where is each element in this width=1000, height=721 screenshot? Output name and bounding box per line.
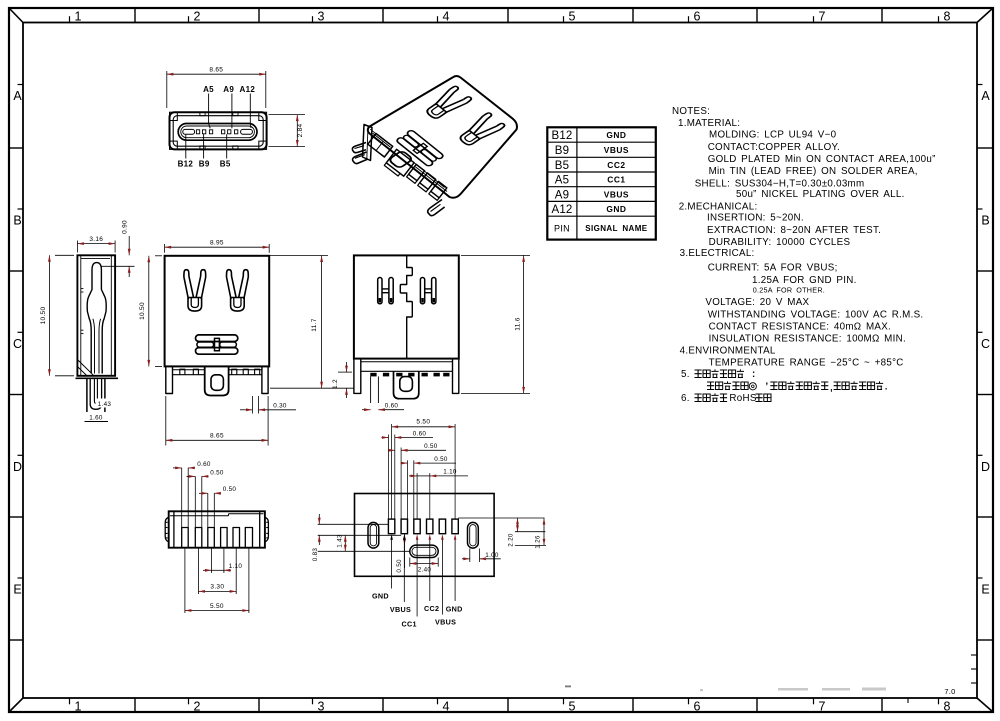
svg-text:CC1: CC1 [402,619,417,628]
svg-text:50u” NICKEL PLATING OVER ALL.: 50u” NICKEL PLATING OVER ALL. [736,189,905,200]
rside clip left [378,278,394,304]
front latch spring right [227,270,249,311]
svg-text:B: B [13,214,21,228]
front center solder tab [205,366,229,395]
svg-text:A5: A5 [555,175,569,187]
pcb left extension lines [318,523,389,525]
svg-text:5.50: 5.50 [210,603,224,610]
bview pin extension lines up [181,468,183,528]
iso latch spring right [455,112,506,149]
dimension 8.65 (shell width, face view) [166,71,168,108]
dimension 11.6 (rside height) [461,254,530,256]
svg-text:8: 8 [944,700,951,714]
svg-text::: : [752,369,756,380]
svg-text:VBUS: VBUS [604,145,629,155]
svg-text:10.50: 10.50 [139,302,146,320]
shell outer outline [170,112,267,149]
shell bottom edge weld bumps [200,146,205,150]
svg-text:NOTES:: NOTES: [672,106,710,117]
iso latch spring left [422,85,473,122]
rside base right leg [453,359,459,394]
dimension 0.50 (pcb vertical) [404,534,406,545]
zone number labels top [69,16,71,22]
svg-text:C: C [981,337,990,351]
pcb outline [355,494,495,577]
svg-text:A12: A12 [240,85,256,94]
frame corner diagonals [9,8,23,23]
pin leader A12 [249,94,251,124]
svg-text:GOLD PLATED Min ON CONTACT ARE: GOLD PLATED Min ON CONTACT AREA,100u” [708,154,936,165]
svg-text:0.50: 0.50 [424,443,438,450]
svg-text:1.00: 1.00 [485,552,499,559]
svg-text:A9: A9 [223,85,234,94]
tongue contact pads [196,130,199,134]
svg-text:GND: GND [606,130,626,140]
dimension 10.50 (front height) [155,255,162,257]
svg-text:4: 4 [443,10,450,24]
iso left solder fork upper [352,143,366,153]
side bottom hatch [77,360,93,376]
svg-text:B9: B9 [555,145,569,157]
dimension 1.43 (leg fork) [96,399,114,408]
iso left mount post [363,125,373,161]
front base left leg [166,366,173,393]
svg-text:CONTACT:COPPER ALLOY.: CONTACT:COPPER ALLOY. [708,142,840,153]
svg-text:3: 3 [318,700,325,714]
svg-text:2: 2 [194,700,201,714]
svg-text:0.30: 0.30 [273,403,287,410]
zone letter labels right [977,84,983,86]
svg-text:11.7: 11.7 [311,318,318,331]
dimension 0.90 (spring recess) [101,265,135,267]
svg-text:1: 1 [75,10,82,24]
side leg fork [90,378,101,409]
svg-text:VBUS: VBUS [390,605,411,614]
faint erased title block marks [700,688,886,692]
svg-text:1.25A FOR GND PIN.: 1.25A FOR GND PIN. [752,275,857,286]
pin leader B9 [203,134,205,158]
rside base left leg [354,359,361,394]
svg-text:CONTACT RESISTANCE: 40mΩ MAX.: CONTACT RESISTANCE: 40mΩ MAX. [709,322,891,333]
table column divider [576,127,578,239]
pin leader A9 [231,94,233,129]
dimension 2.84 (slot height, face view) [269,114,306,116]
rside solder tail dashes [370,373,376,377]
svg-text:SIGNAL NAME: SIGNAL NAME [585,224,648,233]
pcb pad extension lines up [387,435,389,520]
zone letter labels left [18,84,24,86]
svg-text:INSULATION RESISTANCE: 100MΩ M: INSULATION RESISTANCE: 100MΩ MIN. [709,334,906,345]
iso center tab with hole [386,149,414,176]
dimension 1.10 (pcb pitch) [409,475,417,477]
dimension 3.16 (side width) [76,241,78,253]
pcb center slot oval [410,545,438,557]
svg-text:MOLDING: LCP UL94 V−0: MOLDING: LCP UL94 V−0 [709,130,837,141]
svg-text:SHELL: SUS304−H,T=0.30±0.03mm: SHELL: SUS304−H,T=0.30±0.03mm [695,178,865,189]
bview top inner line [170,515,229,517]
svg-text:1.10: 1.10 [443,469,457,476]
svg-text:1.10: 1.10 [229,563,243,570]
svg-text:1: 1 [75,700,82,714]
svg-text:B: B [981,214,989,228]
svg-text:6.: 6. [681,393,690,404]
svg-text:0.50: 0.50 [210,469,224,476]
dimension 0.83 (pcb) [318,514,320,524]
svg-text:7: 7 [819,700,826,714]
iso shell step shelf [368,134,393,158]
dimension 1.26 (pcb) [543,518,545,545]
svg-text:5: 5 [569,10,576,24]
svg-text:11.6: 11.6 [514,317,521,330]
svg-text:0.50: 0.50 [223,486,237,493]
svg-text:GND: GND [372,592,389,601]
svg-text:7: 7 [819,10,826,24]
iso latch/clip features on top face [370,85,506,185]
svg-text:1.60: 1.60 [89,414,103,421]
front base strip [173,369,205,371]
pcb right slot oval [468,522,479,548]
dimension 3.30 (pitch) [199,590,237,592]
svg-text:8.65: 8.65 [210,433,224,440]
bview pin extension lines down [184,548,186,613]
tongue left contact bar [183,129,195,134]
svg-text:A: A [13,89,22,103]
svg-text:D: D [13,460,22,474]
svg-text:B5: B5 [555,160,569,172]
svg-text:7.0: 7.0 [944,687,955,696]
svg-text:0.50: 0.50 [434,456,448,463]
svg-text:,: , [830,383,833,393]
front base right leg [262,366,268,393]
rside center solder tab [394,371,419,398]
iso solder tooth 3 [431,181,447,197]
svg-text:0.83: 0.83 [312,548,319,562]
svg-text:3.ELECTRICAL:: 3.ELECTRICAL: [680,248,755,259]
shell inner outline [173,116,263,147]
svg-text:10.50: 10.50 [40,307,47,325]
svg-text:4.ENVIRONMENTAL: 4.ENVIRONMENTAL [680,346,776,357]
svg-text:EXTRACTION: 8~20N AFTER TEST.: EXTRACTION: 8~20N AFTER TEST. [707,225,881,236]
rside pin extension lines [370,376,372,403]
svg-text:6: 6 [694,10,701,24]
dimension 0.50 #2 (pin3 width, bottom view) [199,492,208,494]
iso shell hole [388,150,413,168]
right border graduation ticks [971,654,977,656]
dimension 0.30 (leg thickness) [252,396,254,414]
shell top edge weld bumps [200,112,205,116]
svg-text:TEMPERATURE RANGE −25°C ~ +85°: TEMPERATURE RANGE −25°C ~ +85°C [709,357,904,368]
bview left end cap [173,511,175,547]
svg-text:.: . [885,382,888,392]
iso body outline [368,76,517,198]
iso mid EMC clip [396,130,445,167]
svg-text:D: D [981,460,990,474]
svg-text:1.MATERIAL:: 1.MATERIAL: [678,118,740,129]
rside base strip [361,361,453,363]
svg-text:C: C [13,337,22,351]
side wall notches [81,288,84,290]
dimension 0.50 #2 (pcb gap) [401,462,408,464]
svg-text:5.50: 5.50 [416,418,430,425]
bview body outline [169,511,265,547]
shell corner tabs [170,112,178,120]
svg-text:1.2: 1.2 [332,379,339,389]
rside center tab hole [400,377,413,392]
top/bottom zone divider ticks [134,8,136,23]
side internal contact spring [87,263,106,374]
svg-text:VBUS: VBUS [435,618,456,627]
front body outline [165,256,270,367]
svg-text:VOLTAGE: 20 V MAX: VOLTAGE: 20 V MAX [705,297,809,308]
svg-text:3.30: 3.30 [210,584,224,591]
dimension 0.60 (pcb pad width) [382,437,389,439]
tongue right contact bar [241,129,253,134]
svg-text:CC1: CC1 [607,175,625,185]
table row lines [547,141,656,143]
rside parting zigzag line [400,255,412,358]
front base solder tabs [180,369,185,375]
pin leader A5 [208,94,210,124]
svg-text:DURABILITY: 10000 CYCLES: DURABILITY: 10000 CYCLES [709,237,851,248]
iso solder tooth 1 [409,164,425,180]
pcb signal leader lines [391,538,393,589]
side body inner wall lines [110,255,112,375]
dimension 2.20 (pcb) [517,518,519,532]
svg-text:CURRENT: 5A FOR VBUS;: CURRENT: 5A FOR VBUS; [708,263,838,274]
svg-text:8.65: 8.65 [209,67,223,74]
pin assignment table [547,127,656,239]
svg-text:2.MECHANICAL:: 2.MECHANICAL: [679,202,758,213]
dimension 1.43 (pcb) [344,535,346,551]
svg-text:’: ’ [765,382,768,393]
svg-text:B9: B9 [199,160,210,169]
side bottom plate [76,377,119,379]
dimension 2.40 (pcb center slot) [409,558,411,567]
iso bottom solder fork [428,200,445,216]
svg-text:1.43: 1.43 [98,401,112,408]
svg-text:3.16: 3.16 [89,236,103,243]
svg-text:1.26: 1.26 [535,535,542,549]
side body outline [77,255,115,375]
svg-text:Min TIN (LEAD FREE) ON SOLDER: Min TIN (LEAD FREE) ON SOLDER AREA, [709,166,918,177]
svg-text:E: E [981,583,989,597]
rside body outline [354,255,459,358]
svg-text:0.50: 0.50 [396,559,403,573]
front EMC clip (double-H) [196,335,238,354]
pin leader B5 [226,134,228,158]
svg-text:A: A [981,89,990,103]
svg-text:B12: B12 [551,130,572,142]
svg-text:0.60: 0.60 [197,461,211,468]
bview right end cap [259,511,261,547]
front center tab hole [211,375,223,391]
svg-text:0.90: 0.90 [122,220,129,234]
svg-text:8: 8 [944,10,951,24]
svg-text:RoHS: RoHS [729,393,756,404]
receptacle slot opening outer [178,124,257,141]
dimension 8.65 (front base width) [165,396,167,446]
dimension 5.50 (pitch) [185,610,249,612]
dimension 1.00 (pcb oval) [469,549,471,563]
svg-text:5.: 5. [681,369,690,380]
receptacle slot opening inner [181,126,255,138]
svg-text:CC2: CC2 [424,604,439,613]
dimension 0.50 #1 (pcb gap) [388,449,395,451]
front latch spring left [184,270,206,311]
svg-text:PIN: PIN [554,223,570,233]
pcb pads [388,519,394,534]
svg-text:WITHSTANDING VOLTAGE: 100V AC: WITHSTANDING VOLTAGE: 100V AC R.M.S. [708,309,924,320]
svg-text:A5: A5 [203,85,214,94]
svg-text:INSERTION: 5~20N.: INSERTION: 5~20N. [707,213,804,224]
dimension 0.60 (rside pin) [362,409,371,411]
iso face seam lines [373,133,391,147]
svg-text:A12: A12 [551,204,572,216]
note line 5b (Chinese) with inspection symbol [707,382,714,390]
dimension 8.95 (front width) [164,244,166,253]
dimension 0.50 #1 (pin2 width, bottom view) [187,475,196,477]
svg-text:0.60: 0.60 [385,403,399,410]
svg-text:1.43: 1.43 [336,534,343,548]
bview pin slots [182,528,189,548]
dimension 1.2 (rside base) [338,371,352,373]
svg-text:0.25A FOR OTHER.: 0.25A FOR OTHER. [753,286,825,295]
svg-text:2.20: 2.20 [507,533,514,547]
svg-text:5: 5 [569,700,576,714]
svg-text:8.95: 8.95 [210,239,224,246]
pin leader B12 [185,135,187,159]
left/right zone divider ticks [9,147,23,149]
iso left solder fork lower [353,152,368,164]
svg-text:E: E [13,583,21,597]
svg-text:2.40: 2.40 [418,567,432,574]
zone number labels bottom [69,698,71,704]
dimension 10.50 (side height) [55,254,74,256]
dimension 1.60 (leg width) [86,412,106,421]
dimension 0.60 (pin1 width, bottom view) [173,467,182,469]
svg-text:2.84: 2.84 [297,123,304,137]
svg-text:CC2: CC2 [607,160,625,170]
side solder leg [87,378,105,419]
svg-text:4: 4 [443,700,450,714]
svg-text:GND: GND [606,204,626,214]
iso solder tooth 2 [420,173,436,189]
rside clip right [420,278,436,304]
svg-text:GND: GND [446,604,463,613]
dimension 11.7 (overall height) [269,255,328,257]
svg-text:VBUS: VBUS [604,189,629,199]
dimension 1.10 (pin pitch) [203,569,212,571]
svg-text:3: 3 [318,10,325,24]
dimension 5.50 (pcb span) [392,426,456,428]
svg-text:B12: B12 [178,160,194,169]
svg-text:B5: B5 [220,160,231,169]
pcb right extension lines [458,517,544,519]
svg-text:A9: A9 [555,189,569,201]
svg-text:2: 2 [194,10,201,24]
svg-text:0.60: 0.60 [413,430,427,437]
pcb left slot oval [368,522,379,548]
svg-text:6: 6 [694,700,701,714]
